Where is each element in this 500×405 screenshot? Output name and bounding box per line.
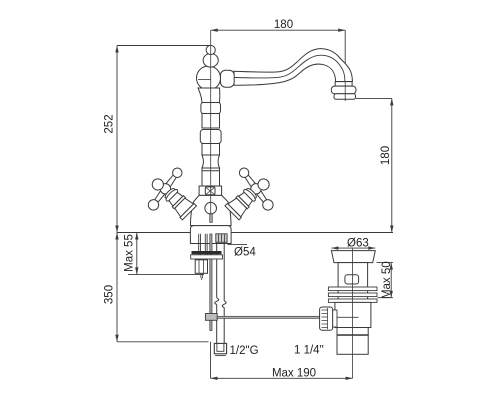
top ball large <box>203 54 218 68</box>
svg-text:Max 55: Max 55 <box>124 234 136 272</box>
faucet center line <box>210 30 212 214</box>
svg-text:252: 252 <box>104 114 116 133</box>
column barrel 3 <box>200 130 221 144</box>
faucet body <box>190 195 231 225</box>
dimension 180 top right extension <box>344 30 346 80</box>
spout outlet bulge <box>331 86 356 94</box>
counter line right segment <box>231 232 393 234</box>
right handle spoke B <box>254 187 269 204</box>
column ring line <box>202 127 220 129</box>
washer bar dark <box>192 251 222 254</box>
right handle hub <box>249 181 264 196</box>
dimension 180 top line <box>211 29 346 31</box>
pop-up lift knob <box>205 202 217 214</box>
spout outlet center line <box>344 82 346 101</box>
svg-text:1/2"G: 1/2"G <box>230 345 259 357</box>
junction ball inner line <box>198 79 211 81</box>
drain rib 2 <box>328 293 377 297</box>
drain body <box>335 302 371 327</box>
dimension 252 line <box>116 46 118 233</box>
dimension O63 arrows <box>331 246 375 249</box>
svg-text:1 1/4": 1 1/4" <box>294 344 324 356</box>
right handle ball B <box>261 198 276 213</box>
drain band <box>337 328 368 336</box>
column ring line 2 <box>202 170 220 172</box>
left handle spoke A <box>163 173 178 190</box>
svg-text:350: 350 <box>104 285 116 304</box>
left handle ring <box>172 196 185 209</box>
dimension Max 55 arrows <box>135 233 138 275</box>
drain neck <box>338 263 368 303</box>
column section 2 <box>202 114 220 129</box>
fitting inner <box>217 343 224 351</box>
mounting nut <box>195 260 207 274</box>
dimension Max 190 arrows <box>211 377 353 380</box>
dimension Max 55 line <box>136 233 138 275</box>
O54 leader line <box>228 244 248 246</box>
dimension Max 50 arrows <box>390 263 393 298</box>
dimension Max 50 top extension <box>377 262 393 264</box>
pop-up rod <box>210 234 212 331</box>
pivot knob ribs <box>322 310 328 328</box>
drain rib 1 <box>328 287 377 291</box>
handle right <box>214 161 284 231</box>
supply hose lines <box>217 242 225 343</box>
rod clamp <box>205 314 217 321</box>
left handle collar 2 <box>164 188 179 203</box>
spout tube <box>234 49 352 86</box>
base skirt <box>190 226 231 244</box>
dimension 180 right arrows <box>390 98 393 232</box>
drain center line <box>352 248 354 379</box>
dimension Max 190 line <box>211 377 353 379</box>
hose nut inner lines <box>219 234 225 243</box>
dimension Max 190 left extension <box>210 342 212 379</box>
left handle collar 1 <box>164 187 176 199</box>
right handle collar 1 <box>245 187 257 199</box>
svg-text:180: 180 <box>380 146 392 165</box>
dimension 350 bottom extension <box>117 341 209 343</box>
column section 5 <box>202 168 220 186</box>
overflow window <box>345 275 359 284</box>
dimension 252 top extension <box>117 45 211 47</box>
hose nut block <box>216 234 227 243</box>
right handle ball C <box>256 177 272 193</box>
svg-text:Max 50: Max 50 <box>381 261 393 299</box>
horseshoe plate <box>191 255 223 259</box>
counter line left segment <box>117 232 190 234</box>
column neck <box>198 88 220 103</box>
drain flange <box>331 251 375 263</box>
below-counter shank lines <box>199 234 207 260</box>
dimension 180 right line <box>391 98 393 232</box>
logo square <box>205 187 215 195</box>
right handle base ring <box>225 203 241 219</box>
dimension 180 right top extension <box>356 97 392 99</box>
supply hose break symbol <box>215 298 226 308</box>
left handle ball B <box>146 198 161 213</box>
logo plate <box>199 186 222 195</box>
drain tailpiece <box>337 335 368 354</box>
stud below nut <box>201 273 203 280</box>
right handle collar 2 <box>242 188 257 203</box>
dimension 350 arrows <box>115 233 118 342</box>
drain body mid line <box>335 316 359 318</box>
fitting bottom line <box>215 355 226 357</box>
spout outlet collar <box>335 82 352 87</box>
left handle ball A <box>171 166 184 179</box>
right handle ring <box>236 196 249 209</box>
left handle bonnet <box>168 192 183 207</box>
handle left (mirror) <box>137 161 207 231</box>
pivot connector plate <box>333 310 337 327</box>
dimension Max 50 line <box>390 263 392 298</box>
top finial ball <box>206 45 215 54</box>
dimension O63 line <box>331 247 375 249</box>
pivot knob <box>320 307 333 330</box>
junction ball <box>197 66 221 90</box>
left handle spoke B <box>153 187 168 204</box>
svg-text:180: 180 <box>274 19 293 31</box>
pivot knob inner vertical <box>327 308 329 329</box>
left handle ball C <box>150 177 166 193</box>
right handle spoke A <box>243 173 258 190</box>
right handle escutcheon <box>228 197 248 217</box>
horizontal pop-up rod <box>217 316 319 318</box>
logo cross <box>206 188 214 194</box>
column barrel 1 <box>201 103 221 114</box>
hose end fitting 1/2G <box>214 343 226 353</box>
drain band bottom thick <box>337 334 368 336</box>
spout tube middle line <box>234 55 345 81</box>
column section 4 <box>202 144 220 156</box>
spout outlet flange <box>334 94 356 100</box>
mounting nut facets <box>199 260 204 274</box>
dimension 180 top arrows <box>211 29 346 32</box>
left handle hub <box>158 181 173 196</box>
svg-text:Max 190: Max 190 <box>272 367 316 379</box>
pop-up knob stem <box>210 214 212 222</box>
dimension 350 line <box>116 233 118 342</box>
dimension 252 arrows <box>115 46 118 233</box>
spout attach collar <box>221 70 235 87</box>
drain rib 3 <box>328 299 377 302</box>
dimension Max 55 bottom extension <box>128 273 204 275</box>
column waist <box>202 155 220 168</box>
right handle bonnet <box>239 192 254 207</box>
left handle base ring <box>180 203 196 219</box>
right handle ball A <box>238 166 251 179</box>
dimension Max 50 bottom extension <box>378 297 393 299</box>
svg-text:Ø54: Ø54 <box>234 246 256 258</box>
left handle escutcheon <box>173 197 193 217</box>
svg-text:Ø63: Ø63 <box>347 237 369 249</box>
